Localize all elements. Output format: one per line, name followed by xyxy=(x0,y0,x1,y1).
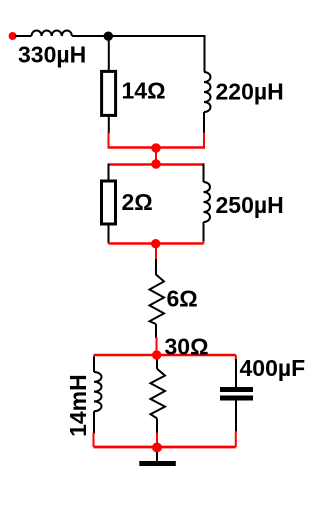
pin lead to R4 top xyxy=(156,360,158,369)
pin lead below R4 xyxy=(156,418,158,433)
pin lead to R3 top xyxy=(155,259,157,275)
pin lead below R1 xyxy=(108,115,110,133)
svg-text:2Ω: 2Ω xyxy=(122,189,153,215)
pin lead to R2 top xyxy=(108,164,110,182)
pin lead to C1 top plate xyxy=(235,359,237,387)
node junction (black dot) xyxy=(104,32,113,41)
wire rail 3 (red) xyxy=(109,242,204,244)
wire corner down to L2 xyxy=(204,35,206,72)
capacitor C1 bottom plate xyxy=(220,396,253,401)
node junction rail2 (red dot) xyxy=(151,159,160,168)
inductor L3 250µH (vertical coil) xyxy=(204,182,211,222)
svg-text:14Ω: 14Ω xyxy=(122,78,166,104)
wire rail 4 (red) xyxy=(94,354,236,356)
svg-text:220µH: 220µH xyxy=(216,79,284,105)
red corner above rail3 right xyxy=(203,241,205,244)
pin lead below R2 xyxy=(108,224,110,244)
svg-text:330µH: 330µH xyxy=(18,42,86,68)
svg-text:6Ω: 6Ω xyxy=(167,286,198,312)
pin lead below L4 xyxy=(93,411,95,433)
svg-text:14mH: 14mH xyxy=(65,374,91,437)
pin lead to L4 top xyxy=(93,356,95,372)
ground lead xyxy=(156,452,158,462)
resistor R3 6Ω (zigzag) xyxy=(150,275,165,325)
resistor R4 30Ω (zigzag) xyxy=(151,369,166,419)
resistor R1 14Ω (box) xyxy=(102,71,116,115)
wire R4 to rail5 (red) xyxy=(156,433,158,448)
inductor L4 14mH (vertical coil) xyxy=(94,372,102,411)
pin lead below L3 xyxy=(203,222,205,242)
wire rail 2 (red) xyxy=(109,163,205,165)
wire red corner down to C1 xyxy=(235,355,237,360)
wire red left drop to rail 1 xyxy=(108,133,110,149)
wire rail 5 bottom (red) xyxy=(94,446,236,449)
capacitor C1 top plate xyxy=(220,387,253,392)
ground symbol bar xyxy=(139,461,176,466)
wire R3 to rail 4 (red) xyxy=(156,337,158,355)
resistor R2 2Ω (box) xyxy=(102,181,116,224)
wire node down to R1 xyxy=(108,36,110,71)
wire L4 to rail5 (red) xyxy=(93,433,95,448)
wire rail3 down to R3 (red) xyxy=(155,244,157,261)
wire L1 to top node xyxy=(72,35,205,37)
wire rail1 to rail2 (red) xyxy=(155,148,157,165)
inductor L1 330µH (horizontal coil) xyxy=(32,31,72,36)
pin lead below R3 xyxy=(155,324,157,338)
svg-text:250µH: 250µH xyxy=(216,192,284,218)
node junction rail3 (red dot) xyxy=(151,239,160,248)
wire from terminal to L1 xyxy=(15,35,32,37)
node junction rail4 (red dot) xyxy=(152,350,161,359)
pin lead below C1 xyxy=(235,401,237,433)
inductor L2 220µH (vertical coil) xyxy=(204,72,211,112)
pin lead below L2 xyxy=(203,112,205,134)
wire red right drop to rail 1 xyxy=(203,133,205,149)
wire C1 to rail5 (red) xyxy=(235,431,237,447)
pin lead to L3 top xyxy=(203,164,205,183)
input terminal node (red dot) xyxy=(9,32,17,40)
node junction rail5 (red dot) xyxy=(152,443,162,453)
svg-text:30Ω: 30Ω xyxy=(165,333,209,359)
svg-text:400µF: 400µF xyxy=(240,355,306,381)
node junction rail1 (red dot) xyxy=(151,143,160,152)
wire rail 1 (red) xyxy=(108,146,206,148)
